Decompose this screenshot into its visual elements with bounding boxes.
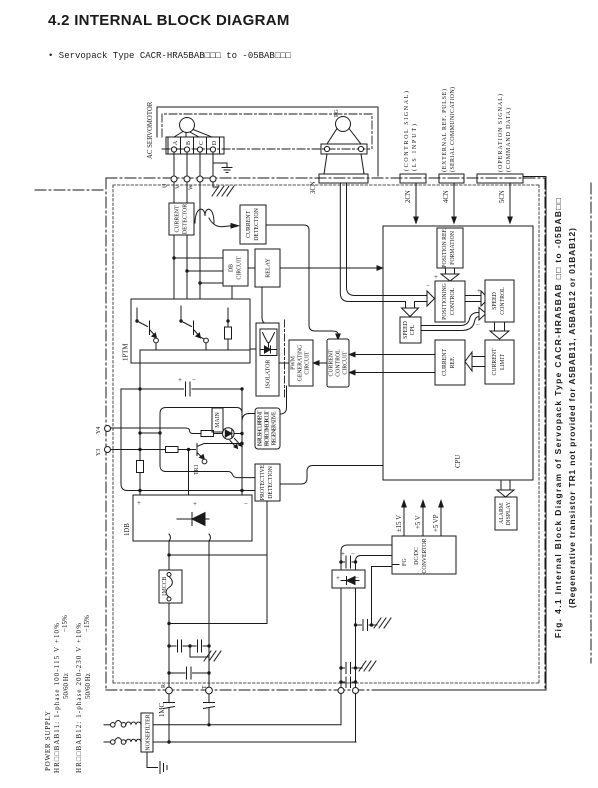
wire W phase motor lead [199,152,201,176]
wire t up to rectifier [355,588,357,742]
svg-text:DISPLAY: DISPLAY [506,501,512,526]
svg-text:CONTROL: CONTROL [450,287,456,315]
svg-text:DETECTION: DETECTION [254,207,260,240]
svg-text:MAIN: MAIN [215,411,221,427]
line filter capacitor row 1 [169,645,209,647]
wire CT to current detection [209,218,231,227]
svg-text:−: − [426,282,430,290]
svg-text:4CN: 4CN [443,190,450,203]
speed control box [485,280,514,322]
wire 1DB right AC down to T [208,541,210,687]
svg-text:FG: FG [402,558,408,566]
terminal R [166,687,173,694]
node W to DB tap [198,281,201,284]
PG circle [336,117,351,132]
hollow arrow speed control to current limit [495,322,505,331]
svg-text:CIRCUIT: CIRCUIT [305,351,311,375]
terminal Y4 [105,426,111,432]
wire TR1 collector [204,443,242,445]
capacitor to chassis ground row A [341,663,356,674]
svg-text:(LS INPUT): (LS INPUT) [411,124,418,171]
connector 4CN [439,174,464,183]
svg-text:NOISEFILTER: NOISEFILTER [146,714,152,750]
breaker 1MCCB box [159,570,182,603]
svg-text:CPU: CPU [455,455,462,468]
svg-text:+5 V: +5 V [415,515,422,529]
svg-text:CURRENT: CURRENT [175,205,181,233]
svg-text:−: − [476,321,480,329]
svg-text:W: W [189,184,195,190]
1PTM emitter bus [140,343,250,350]
svg-text:CURRENT: CURRENT [246,211,252,239]
FG filter capacitor to chassis ground [356,620,372,631]
AC squiggles at 1DB bottom [169,534,211,541]
noise filter box [141,713,153,752]
wire bus to protective detection lower rail [121,389,255,491]
power feed terminal r [338,688,344,694]
svg-text:U: U [163,183,169,188]
wire caps to DC/DC input 2 [356,556,393,563]
motor lead wires [174,130,212,138]
node V to DB tap [185,269,188,272]
MAIN lamp wire [214,433,243,435]
svg-text:1MCCB: 1MCCB [162,577,168,597]
svg-text:DETECTOR: DETECTOR [183,204,189,234]
svg-text:+: + [341,550,345,558]
arrow CCC to PWM [319,362,327,364]
svg-text:Y3: Y3 [96,449,102,456]
servopack terminal FG [210,176,216,182]
svg-text:CONTROL: CONTROL [500,287,506,315]
node U to DB tap [172,256,175,259]
contactor 1MC contact R [164,694,175,742]
wire inrush box to pwm area [280,386,287,414]
current ref box [435,340,465,385]
svg-text:CONTROL: CONTROL [336,349,342,377]
svg-text:1DB: 1DB [124,523,131,536]
hollow arrow into positioning control [427,291,435,306]
svg-text:1PTM: 1PTM [123,344,130,361]
inrush current protective circuit box [255,408,280,449]
servopack terminal V [184,176,190,182]
motor case chain box [162,114,372,149]
PG feedback double wire from 3CN [340,183,383,302]
hollow arrow branch down to speed cpl [406,302,415,309]
svg-text:RELAY: RELAY [266,258,272,278]
PG cable to 3CN [324,154,364,174]
svg-text:−: − [192,376,196,384]
svg-text:+: + [137,499,141,507]
svg-text:DC/DC: DC/DC [414,547,420,565]
capacitor midpoint to chassis ground [190,646,221,661]
wire to inrush box [242,414,255,422]
diode in 1DB [177,513,209,526]
left page chain line [35,189,106,191]
power input line 1 [104,724,110,726]
svg-text:AC SERVOMOTOR: AC SERVOMOTOR [147,101,154,159]
wire 1DB left AC to 1MCCB [168,541,170,570]
svg-text:2CN: 2CN [405,190,412,203]
svg-text:(CONTROL SIGNAL): (CONTROL SIGNAL) [403,91,410,171]
wire motor frame ground lead [212,152,214,176]
CPU box [383,226,533,480]
wire U phase to 1PTM [173,182,175,299]
DB circuit box [223,250,248,286]
svg-text:(SERIAL COMMUNICATION): (SERIAL COMMUNICATION) [449,87,456,172]
svg-text:HR□□BAB11: 1-phase 100-115 V +: HR□□BAB11: 1-phase 100-115 V +10% [53,623,61,773]
PG terminal bar [321,144,367,154]
wire V tap to DB circuit [187,270,223,272]
svg-text:CURRENT: CURRENT [492,348,498,376]
svg-text:+5 VP: +5 VP [433,514,440,532]
svg-text:+: + [178,376,182,384]
wire current ref to CCC upper [355,354,435,356]
output +5V [422,507,424,536]
wire W tap to DB circuit [200,282,223,284]
svg-text:−: − [244,500,248,508]
svg-text:DB: DB [229,264,235,272]
wire U phase motor lead [173,152,175,176]
svg-text:T: T [202,685,208,689]
svg-text:4.2 INTERNAL BLOCK DIAGRAM: 4.2 INTERNAL BLOCK DIAGRAM [48,12,290,29]
terminal T [206,687,213,694]
svg-text:50/60 Hz: 50/60 Hz [84,673,92,699]
svg-text:−15%: −15% [83,615,91,632]
transistor TR1 [187,448,190,451]
svg-text:TR1: TR1 [194,464,200,475]
opto coupler box [260,329,277,356]
svg-text:IN-RUSH CURRENT: IN-RUSH CURRENT [258,410,264,446]
svg-text:A: A [173,140,179,145]
resistor R3 vertical [137,461,144,473]
LED emission arrows [230,439,240,447]
servopack terminal W [197,176,203,182]
transistor Q2 [181,321,198,335]
svg-text:5CN: 5CN [499,190,506,203]
servopack inner dashed border [113,185,539,683]
wire r up to rectifier [340,588,342,725]
svg-text:• Servopack Type CACR-HRA5BAB□: • Servopack Type CACR-HRA5BAB□□□ to -05B… [48,51,292,61]
current detection box [240,205,266,244]
rectifier box [332,570,365,588]
power transistor module 1PTM box [131,299,250,363]
CT pickup loops [195,209,214,223]
svg-text:1MC: 1MC [159,703,166,717]
svg-text:−15%: −15% [61,615,69,632]
wire current detection to current control circuit [266,225,338,334]
svg-text:(EXTERNAL REF. PULSE): (EXTERNAL REF. PULSE) [441,89,448,172]
DC bus wire with capacitor [121,388,242,390]
capacitor row B [341,677,356,688]
wire V phase to 1PTM [186,182,188,299]
wire DB circuit down to 1PTM [231,286,233,299]
wire Y4 [111,428,202,434]
wire protective detection to CPU [280,466,383,485]
terminal strip circles [171,147,176,152]
bus capacitor C1 [186,382,191,396]
isolator box [256,323,279,396]
transistor Q2 collector stub [180,306,182,321]
svg-text:PG: PG [334,109,340,117]
svg-text:FORMATION: FORMATION [450,230,456,265]
svg-text:PROTECTIVE: PROTECTIVE [260,464,266,500]
smoothing capacitor with polarity [341,556,356,570]
wire 1MCCB to R terminal [168,603,170,687]
PG feedback double wire inside CPU [383,296,427,302]
svg-text:Y4: Y4 [96,427,102,434]
stub wire row 433 [140,432,160,434]
MAIN lamp LED circle [223,428,235,440]
svg-text:CIRCUIT: CIRCUIT [237,256,243,280]
svg-text:POSITION REF.: POSITION REF. [442,228,448,268]
position ref formation box [437,228,463,268]
hollow arrow position ref to positioning control [446,268,455,274]
svg-text:C: C [199,141,205,145]
current control circuit box [327,339,349,387]
double wire positioning control to speed control [465,296,481,302]
relay box [255,249,280,287]
servopack terminal U [171,176,177,182]
svg-text:REF.: REF. [450,356,456,368]
resistor R in 1PTM [227,308,229,327]
noise filter output wires [153,725,356,742]
chassis ground below FG terminal [212,182,234,196]
connector 5CN [477,174,523,183]
svg-text:CURRENT: CURRENT [329,349,335,377]
motor terminal strip A B C D [166,137,224,154]
svg-text:SPEED: SPEED [492,292,498,310]
svg-text:D: D [212,140,218,145]
output +5VP [440,507,442,536]
svg-text:CONVERTOR: CONVERTOR [422,538,428,573]
svg-text:R: R [161,684,167,688]
svg-text:DETECTION: DETECTION [268,465,274,498]
svg-text:PWM: PWM [291,356,297,370]
resistor R4 [201,431,214,437]
current limit box [485,340,514,384]
output +-15V [403,507,405,536]
diode bridge 1DB box [133,495,252,541]
resistor R2 [166,447,179,453]
hollow arrow current limit to current ref [472,357,485,367]
wire TR1 base to 1DB plus [188,450,190,496]
svg-text:(OPERATION SIGNAL): (OPERATION SIGNAL) [497,94,504,172]
earth ground symbol above border [213,163,232,173]
svg-text:3CN: 3CN [310,181,317,194]
DC/DC convertor box [392,536,456,574]
protective detection box [255,464,280,501]
transistor Q1 collector stub [136,308,138,321]
svg-text:POWER SUPPLY: POWER SUPPLY [44,711,52,771]
svg-text:50/60 Hz: 50/60 Hz [62,673,70,699]
wire caps to DC/DC input 1 [341,545,392,562]
vertical wire x140 [139,389,141,495]
svg-text:+: + [193,500,197,508]
PWM generating circuit box [289,340,313,386]
alarm display box [495,497,517,530]
rectifier diode [341,577,359,585]
current detector U1 box [169,203,194,235]
svg-text:POSITIONING: POSITIONING [442,283,448,320]
svg-text:GENERATING: GENERATING [298,345,304,382]
svg-text:ALARM: ALARM [499,503,505,524]
svg-text:(Regenerative transistor TR1 n: (Regenerative transistor TR1 not provide… [567,228,577,608]
contactor 1MC contact T [204,694,215,725]
wire relay to CPU [280,267,377,269]
wire 1PTM emitter leg to bus [139,350,141,389]
svg-text:CPL: CPL [410,324,416,335]
motor assembly outer solid box [157,107,378,176]
right page chain line [590,183,592,663]
svg-text:+: + [477,287,481,295]
wire arrow 5CN to CPU [509,183,511,217]
wire DB to relay [248,267,255,269]
wire W phase to 1PTM [199,182,201,299]
vertical wire x242 to 1DB minus [241,389,243,495]
svg-text:CIRCUIT: CIRCUIT [343,351,349,375]
svg-text:−: − [351,550,355,558]
wire arrow 2CN to CPU [415,183,417,217]
svg-text:+: + [434,273,438,281]
svg-text:V: V [176,184,182,189]
svg-text:(COMMAND DATA): (COMMAND DATA) [505,108,512,172]
svg-text:ISOLATOR: ISOLATOR [266,360,272,389]
svg-text:Fig. 4.1 Internal Block Diagr: Fig. 4.1 Internal Block Diagram of Servo… [553,198,563,638]
line filter capacitor row 2 [169,667,209,679]
wire arrow 4CN to CPU [453,183,455,217]
transistor Q1 [137,321,154,335]
svg-text:PROTECTIVE CIRCUIT: PROTECTIVE CIRCUIT [265,410,271,446]
svg-text:B: B [186,141,192,145]
wire 1PTM to isolator [250,348,256,350]
wire DC rail to protective detection vertical [169,501,267,624]
wire V phase motor lead [186,152,188,176]
FG wire to ground cluster [372,567,393,626]
positioning control box [435,281,465,322]
svg-text:SPEED: SPEED [403,321,409,339]
noise filter earth ground [147,752,167,774]
PG lead wires [327,129,361,145]
wire relay down to isolator [262,287,266,324]
hollow arrow CPU to alarm display [501,480,510,490]
motor M circle [180,118,195,133]
power input line 2 [104,741,110,743]
svg-text:CURRENT: CURRENT [442,349,448,377]
wire Y3 to TR1 base [111,449,196,451]
right solid border from 5CN around bottom [380,177,546,691]
connector 2CN [400,174,426,183]
power feed terminal t [353,688,359,694]
wire isolator to PWM [279,362,289,364]
partition chain line [284,320,286,398]
wire U tap to DB circuit [174,257,223,259]
speed cpl box [400,317,421,343]
1MCCB contacts [167,573,171,577]
svg-text:LIMIT: LIMIT [500,353,506,370]
wire current ref to CCC lower [355,372,435,374]
double wire speed cpl to speed control minus input [421,313,479,331]
servopack outer enclosure chain border [106,178,545,690]
svg-text:+: + [336,574,340,582]
svg-text:HR□□BAB12: 1-phase 200-230 V +: HR□□BAB12: 1-phase 200-230 V +10% [75,623,83,773]
terminal Y3 [105,447,111,453]
svg-text:REGENERATIVE: REGENERATIVE [272,411,278,445]
connector 3CN [319,174,368,183]
svg-text:±15 V: ±15 V [396,515,403,532]
wire branch x160 upper loop [160,408,255,478]
MAIN lamp label box [212,408,223,432]
